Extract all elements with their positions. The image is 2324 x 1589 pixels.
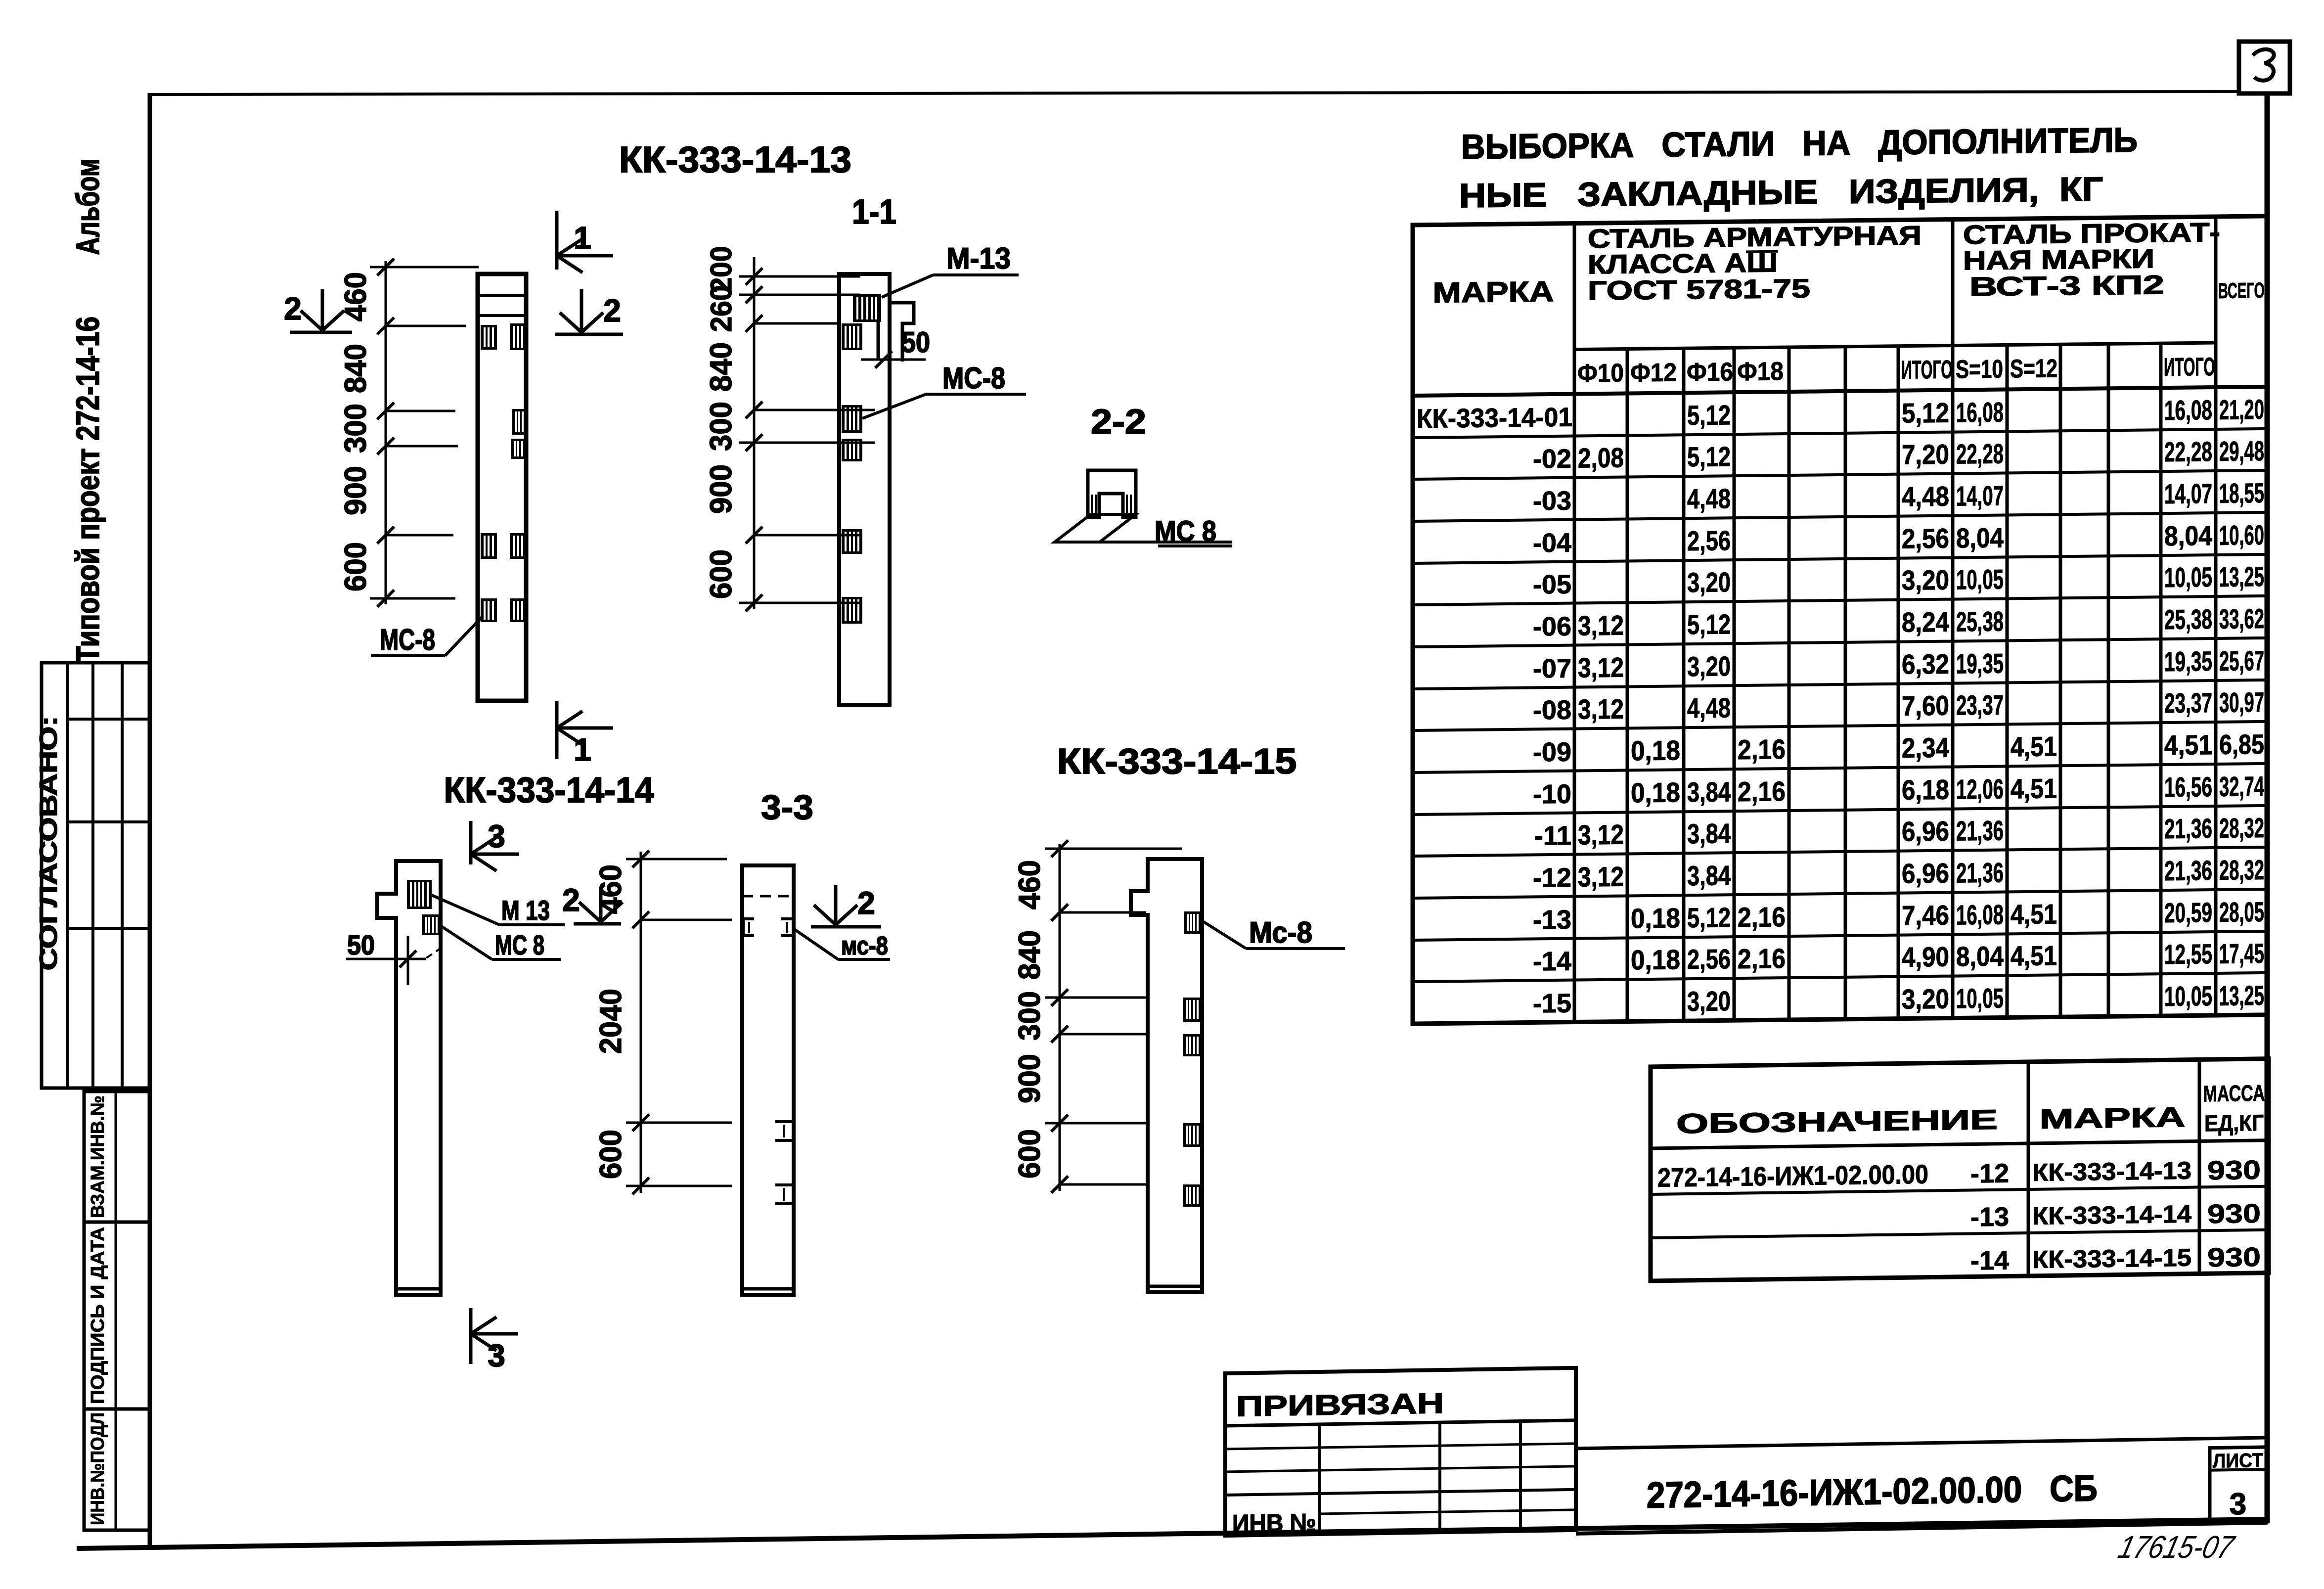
subheader diameters row (1577, 353, 2215, 388)
svg-text:5,12: 5,12 (1902, 397, 1949, 429)
svg-text:1-1: 1-1 (852, 192, 896, 231)
svg-text:2: 2 (857, 885, 875, 921)
svg-text:5,12: 5,12 (1687, 399, 1731, 431)
svg-text:-10: -10 (1533, 779, 1571, 810)
designation table headers (1676, 1080, 2265, 1143)
svg-text:-13: -13 (1970, 1202, 2009, 1232)
svg-text:10,05: 10,05 (1956, 563, 2004, 595)
view marker 2 right (3-3) (811, 885, 881, 927)
svg-text:1: 1 (574, 732, 591, 768)
text ПРИВЯЗАН (1236, 1387, 1444, 1423)
svg-text:0,18: 0,18 (1631, 734, 1680, 766)
svg-text:МС-8: МС-8 (380, 623, 435, 656)
svg-text:3: 3 (2230, 1487, 2246, 1522)
svg-text:СОГЛАСОВАНО:: СОГЛАСОВАНО: (35, 716, 62, 971)
svg-text:0,18: 0,18 (1631, 902, 1680, 934)
svg-text:32,74: 32,74 (2219, 771, 2264, 802)
dimension ticks section 1-1 (746, 268, 762, 611)
svg-text:М-13: М-13 (946, 242, 1011, 275)
svg-text:-06: -06 (1533, 612, 1571, 642)
svg-text:2: 2 (603, 293, 621, 328)
svg-text:7,60: 7,60 (1902, 690, 1949, 722)
dim label 900 (1-1) (704, 464, 738, 514)
steel table title line 2 (1459, 170, 2103, 215)
label MC-8 with leader (1-1) (862, 362, 1026, 418)
svg-text:260: 260 (705, 285, 738, 332)
extension lines section 3-3 (626, 859, 732, 1186)
svg-text:0,18: 0,18 (1631, 944, 1680, 975)
sheet number 3 (2253, 49, 2274, 81)
dimension line section 3-3 (640, 852, 642, 1193)
svg-text:3,20: 3,20 (1902, 983, 1949, 1015)
svg-text:S=10: S=10 (1956, 355, 2003, 384)
svg-text:3,12: 3,12 (1578, 861, 1624, 893)
svg-text:21,20: 21,20 (2219, 394, 2264, 425)
svg-text:1: 1 (574, 220, 591, 256)
svg-text:18,55: 18,55 (2219, 477, 2264, 509)
svg-text:ИТОГО: ИТОГО (1901, 356, 1953, 385)
svg-text:-14: -14 (1970, 1246, 2009, 1276)
svg-text:ВЗАМ.ИНВ.№: ВЗАМ.ИНВ.№ (88, 1095, 108, 1218)
svg-text:-11: -11 (1534, 821, 1571, 851)
svg-text:КК-333-14-14: КК-333-14-14 (444, 771, 654, 810)
designation row 3 (1970, 1242, 2261, 1276)
label section 1-1 (852, 192, 896, 231)
svg-text:4,48: 4,48 (1902, 481, 1949, 512)
dimension line bar15 (1059, 844, 1061, 1191)
label MC-8 with leader (3-3) (794, 929, 890, 960)
svg-text:460: 460 (339, 272, 373, 321)
svg-text:КК-333-14-13: КК-333-14-13 (619, 139, 851, 180)
designation table frame (1651, 1059, 2269, 1281)
view marker 2 right (555, 289, 623, 334)
bracket figure 2-2 (1088, 470, 1136, 517)
svg-text:6,32: 6,32 (1902, 648, 1949, 680)
svg-text:-05: -05 (1533, 570, 1571, 600)
svg-text:2,34: 2,34 (1902, 732, 1949, 764)
dim label 840 (1-1) (704, 342, 738, 392)
svg-text:300: 300 (1013, 991, 1047, 1041)
svg-text:2,56: 2,56 (1687, 525, 1731, 556)
svg-text:Ф16: Ф16 (1687, 358, 1733, 387)
extension lines bar13 (370, 267, 479, 598)
svg-text:-09: -09 (1533, 737, 1571, 768)
plates of section 3-3 (743, 919, 794, 1204)
album stamp text line 2 (69, 159, 106, 255)
dim label 900 (339, 466, 373, 515)
steel table column lines (1574, 217, 2216, 1022)
svg-text:6,18: 6,18 (1902, 774, 1949, 806)
svg-text:16,56: 16,56 (2164, 771, 2212, 803)
svg-text:МАРКА: МАРКА (1433, 275, 1554, 309)
svg-text:Ф18: Ф18 (1737, 357, 1784, 386)
embedded plates of bar 13 (481, 323, 526, 622)
svg-text:МС-8: МС-8 (942, 362, 1005, 395)
svg-text:17,45: 17,45 (2219, 938, 2264, 969)
column bar KK-333-14-14 (377, 861, 441, 1295)
sheet cell ЛИСТ (2210, 1447, 2267, 1524)
svg-text:-15: -15 (1533, 989, 1571, 1019)
dim label 200 (1-1) (705, 246, 738, 293)
svg-text:2,16: 2,16 (1738, 901, 1786, 933)
stamp cell ИНВ № ПОДЛ (84, 1409, 149, 1530)
svg-text:600: 600 (594, 1130, 628, 1179)
svg-text:3,12: 3,12 (1578, 819, 1624, 851)
dim label 600 (15) (1013, 1129, 1047, 1179)
frame right border (2265, 93, 2270, 1523)
dim label 300 (339, 404, 373, 453)
svg-text:2,16: 2,16 (1738, 733, 1786, 765)
steel table row lines (1413, 429, 2268, 982)
svg-text:S=12: S=12 (2010, 354, 2057, 383)
dim label 600 (1-1) (704, 549, 738, 599)
svg-text:4,51: 4,51 (2164, 729, 2212, 761)
section marker 1 bottom (557, 701, 613, 768)
svg-text:600: 600 (339, 542, 373, 591)
column bar section 1-1 (839, 274, 890, 705)
svg-text:4,90: 4,90 (1902, 941, 1949, 973)
svg-text:2: 2 (284, 291, 302, 326)
svg-text:3,20: 3,20 (1902, 564, 1949, 596)
svg-text:Мс-8: Мс-8 (1249, 916, 1312, 949)
album stamp text line 1 (69, 317, 106, 663)
dim 50 of bar14 (346, 929, 444, 985)
svg-text:-02: -02 (1533, 444, 1571, 474)
svg-text:6,96: 6,96 (1902, 816, 1949, 847)
dim label 900 (15) (1013, 1054, 1047, 1103)
svg-text:300: 300 (704, 402, 738, 451)
svg-text:ПОДПИСЬ И ДАТА: ПОДПИСЬ И ДАТА (88, 1227, 108, 1404)
svg-text:3,20: 3,20 (1687, 985, 1731, 1017)
label KK-333-14-14 (444, 771, 654, 810)
svg-text:600: 600 (1013, 1129, 1047, 1179)
svg-text:Типовой проект 272-14-16: Типовой проект 272-14-16 (69, 317, 106, 663)
svg-text:29,48: 29,48 (2219, 435, 2264, 467)
svg-text:-13: -13 (1533, 905, 1571, 935)
svg-text:КК-333-14-01: КК-333-14-01 (1417, 403, 1572, 434)
svg-text:3-3: 3-3 (761, 788, 813, 826)
stamp cell ПОДПИСЬ И ДАТА (84, 1222, 149, 1409)
svg-text:4,51: 4,51 (2011, 940, 2057, 971)
dim label 840 (15) (1013, 930, 1047, 980)
dimension line section 1-1 (753, 257, 756, 609)
svg-text:КК-333-14-15: КК-333-14-15 (2032, 1244, 2191, 1273)
svg-text:840: 840 (1013, 930, 1047, 980)
svg-text:28,32: 28,32 (2219, 854, 2264, 886)
svg-text:20,59: 20,59 (2164, 897, 2212, 928)
extension lines section 1-1 (739, 276, 875, 603)
svg-text:2,56: 2,56 (1687, 943, 1731, 975)
svg-text:ЛИСТ: ЛИСТ (2213, 1450, 2263, 1472)
column bar KK-333-14-15 (1131, 859, 1202, 1292)
svg-text:21,36: 21,36 (1956, 815, 2004, 846)
svg-text:16,08: 16,08 (2164, 394, 2212, 426)
approval stamp text (35, 716, 62, 971)
svg-text:930: 930 (2207, 1242, 2261, 1272)
svg-text:3,20: 3,20 (1687, 566, 1731, 598)
text ИНВ № (1232, 1508, 1316, 1538)
label M-13 with leader (882, 242, 1019, 297)
svg-text:600: 600 (704, 549, 738, 599)
svg-text:ГОСТ 5781-75: ГОСТ 5781-75 (1588, 274, 1810, 306)
plate MC8 of bar14 (422, 914, 441, 935)
svg-text:2,56: 2,56 (1902, 523, 1949, 554)
svg-text:4,51: 4,51 (2011, 772, 2057, 804)
svg-text:3,84: 3,84 (1687, 776, 1731, 808)
svg-text:МАССА: МАССА (2203, 1080, 2265, 1107)
svg-text:3,84: 3,84 (1687, 817, 1731, 849)
view marker 2 left (284, 289, 352, 332)
svg-text:840: 840 (704, 342, 738, 392)
frame bottom border (77, 1519, 2269, 1548)
label KK-333-14-15 (1057, 742, 1297, 781)
label MC-8 of bar13 (371, 616, 483, 656)
svg-text:-04: -04 (1533, 528, 1571, 558)
svg-text:900: 900 (339, 466, 373, 515)
label KK-333-14-13 (619, 139, 851, 180)
dimension ticks bar15 (1051, 840, 1068, 1193)
svg-text:13,25: 13,25 (2219, 561, 2264, 592)
svg-text:КК-333-14-13: КК-333-14-13 (2032, 1157, 2191, 1186)
anchor profile at M-13 (878, 303, 914, 362)
svg-text:3,12: 3,12 (1578, 652, 1624, 683)
base plate parallelogram 2-2 (1055, 514, 1232, 542)
svg-text:12,55: 12,55 (2164, 938, 2212, 970)
steel table title line 1 (1461, 121, 2138, 166)
header Сталь арматурная (1588, 221, 1922, 306)
dim label 260 (1-1) (705, 285, 738, 332)
approval stamp box СОГЛАСОВАНО (42, 663, 149, 1088)
svg-text:8,24: 8,24 (1902, 606, 1949, 638)
dim label 460 (339, 272, 373, 321)
plate M13 of bar14 (407, 880, 432, 909)
svg-text:-14: -14 (1533, 947, 1571, 977)
svg-text:3: 3 (488, 818, 505, 854)
svg-text:28,32: 28,32 (2219, 812, 2264, 844)
label MC-8 with leader (bar15) (1202, 916, 1345, 949)
frame left border (148, 93, 152, 1547)
dimension line bar13 (385, 261, 387, 604)
steel table outer frame (1413, 216, 2268, 1024)
svg-text:17615-07: 17615-07 (2115, 1529, 2238, 1565)
header Сталь прокатная (1963, 218, 2220, 302)
svg-text:Ф12: Ф12 (1630, 358, 1677, 387)
dim label 600 (3-3) (594, 1130, 628, 1179)
svg-text:МС 8: МС 8 (495, 929, 544, 960)
svg-text:14,07: 14,07 (1956, 480, 2004, 511)
svg-text:8,04: 8,04 (2164, 520, 2212, 551)
svg-text:-03: -03 (1533, 486, 1571, 516)
svg-text:460: 460 (1013, 860, 1047, 909)
svg-text:16,08: 16,08 (1956, 396, 2004, 428)
svg-text:4,51: 4,51 (2011, 898, 2057, 930)
header МАРКА (1433, 275, 1554, 309)
svg-text:22,28: 22,28 (2164, 436, 2212, 467)
svg-text:10,05: 10,05 (2164, 980, 2212, 1012)
label M 13 with leader (bar14) (432, 895, 565, 926)
svg-text:2-2: 2-2 (1091, 402, 1146, 441)
designation row 2 (1970, 1199, 2261, 1232)
svg-text:272-14-16-ИЖ1-02.00.00: 272-14-16-ИЖ1-02.00.00 (1657, 1160, 1928, 1193)
svg-text:7,46: 7,46 (1902, 900, 1949, 931)
svg-text:23,37: 23,37 (1956, 689, 2004, 721)
svg-text:10,05: 10,05 (2164, 561, 2212, 593)
handwritten number 17615-07 (2115, 1529, 2238, 1565)
frame top border (148, 91, 2240, 94)
dim label 600 (339, 542, 373, 591)
svg-text:300: 300 (339, 404, 373, 453)
label section 2-2 (1091, 402, 1146, 441)
svg-text:19,35: 19,35 (1956, 647, 2004, 679)
svg-text:5,12: 5,12 (1687, 608, 1731, 640)
dim 50 of section 1-1 (861, 326, 930, 368)
dim label 460 (3-3) (594, 864, 628, 914)
svg-text:21,36: 21,36 (2164, 855, 2212, 886)
svg-text:460: 460 (594, 864, 628, 914)
sheet number box (2239, 42, 2290, 93)
svg-text:ВСЕГО: ВСЕГО (2218, 278, 2265, 303)
svg-text:2040: 2040 (594, 989, 628, 1054)
svg-text:-08: -08 (1533, 695, 1571, 726)
dim label 2040 (3-3) (594, 989, 628, 1054)
svg-text:ИТОГО: ИТОГО (2164, 353, 2215, 382)
svg-text:3,12: 3,12 (1578, 610, 1624, 641)
section marker 3 top (471, 818, 519, 871)
svg-text:30,97: 30,97 (2219, 686, 2264, 718)
svg-text:900: 900 (1013, 1054, 1047, 1103)
svg-text:3,12: 3,12 (1578, 693, 1624, 725)
dim label 300 (15) (1013, 991, 1047, 1041)
svg-text:19,35: 19,35 (2164, 645, 2212, 677)
svg-text:25,38: 25,38 (2164, 603, 2212, 635)
svg-text:272-14-16-ИЖ1-02.00.00 СБ: 272-14-16-ИЖ1-02.00.00 СБ (1647, 1467, 2098, 1515)
svg-text:4,48: 4,48 (1687, 692, 1731, 724)
dimension ticks section 3-3 (632, 851, 649, 1194)
svg-text:10,60: 10,60 (2219, 519, 2264, 551)
embedded plates of bar15 (1183, 911, 1201, 1207)
svg-text:21,36: 21,36 (2164, 813, 2212, 844)
svg-text:МС 8: МС 8 (1155, 515, 1216, 547)
header ВСЕГО (2218, 278, 2265, 303)
svg-text:-12: -12 (1533, 863, 1571, 893)
extension lines bar15 (1045, 849, 1182, 1184)
designation text 272-14-16-ИЖ1-02.00.00 СБ (1647, 1467, 2098, 1515)
svg-text:6,85: 6,85 (2219, 728, 2264, 760)
svg-text:5,12: 5,12 (1687, 902, 1731, 933)
svg-text:28,05: 28,05 (2219, 896, 2264, 928)
svg-text:3,20: 3,20 (1687, 650, 1731, 682)
svg-text:6,96: 6,96 (1902, 858, 1949, 889)
stamp cell ВЗАМ ИНВ № (84, 1091, 149, 1222)
svg-text:ОБОЗНАЧЕНИЕ: ОБОЗНАЧЕНИЕ (1676, 1104, 1998, 1139)
svg-text:10,05: 10,05 (1956, 982, 2004, 1014)
view marker 2 left (3-3) (562, 882, 623, 924)
svg-text:8,04: 8,04 (1956, 940, 2004, 972)
svg-text:ИНВ №: ИНВ № (1232, 1508, 1316, 1538)
svg-text:25,67: 25,67 (2219, 645, 2264, 677)
label MC 8 with leader (bar14) (441, 926, 561, 960)
bar top joint lines (478, 296, 526, 316)
svg-text:13,25: 13,25 (2219, 980, 2264, 1011)
label MC 8 (2-2) (1155, 515, 1232, 547)
label section 3-3 (761, 788, 813, 826)
svg-text:ПРИВЯЗАН: ПРИВЯЗАН (1236, 1387, 1444, 1423)
svg-text:ВЫБОРКА СТАЛИ НА ДОПОЛНИ: ВЫБОРКА СТАЛИ НА ДОПОЛНИТЕЛЬ (1461, 121, 2138, 166)
svg-text:21,36: 21,36 (1956, 857, 2004, 888)
section marker 3 bottom (471, 1308, 518, 1373)
svg-text:7,20: 7,20 (1902, 439, 1949, 470)
svg-text:МАРКА: МАРКА (2039, 1101, 2185, 1135)
svg-text:КК-333-14-15: КК-333-14-15 (1057, 742, 1297, 781)
svg-text:33,62: 33,62 (2219, 603, 2264, 635)
tie-in box ПРИВЯЗАН (1225, 1368, 1576, 1536)
svg-text:2,08: 2,08 (1578, 442, 1624, 474)
svg-text:930: 930 (2207, 1199, 2261, 1229)
svg-text:22,28: 22,28 (1956, 438, 2004, 469)
svg-text:900: 900 (704, 464, 738, 514)
column bar KK-333-14-13 (478, 274, 526, 701)
svg-text:8,04: 8,04 (1956, 522, 2004, 553)
svg-text:4,51: 4,51 (2011, 730, 2057, 762)
svg-text:2: 2 (562, 882, 580, 918)
svg-text:930: 930 (2207, 1155, 2261, 1185)
svg-text:23,37: 23,37 (2164, 687, 2212, 719)
steel table header lines (1413, 342, 2268, 396)
svg-text:14,07: 14,07 (2164, 478, 2212, 509)
designation row 1 (1657, 1155, 2261, 1193)
svg-text:Альбом: Альбом (69, 159, 106, 255)
svg-text:2,16: 2,16 (1738, 775, 1786, 807)
svg-text:3: 3 (488, 1338, 505, 1373)
svg-text:50: 50 (347, 929, 375, 960)
svg-text:НЫЕ ЗАКЛАДНЫЕ ИЗДЕЛИЯ, КГ: НЫЕ ЗАКЛАДНЫЕ ИЗДЕЛИЯ, КГ (1459, 170, 2103, 215)
svg-text:М 13: М 13 (501, 895, 550, 926)
svg-text:3,84: 3,84 (1687, 860, 1731, 891)
title strip lines (1576, 1438, 2267, 1534)
svg-text:Ф10: Ф10 (1577, 359, 1624, 388)
plate M-13 of section 1-1 (853, 294, 881, 322)
svg-text:12,06: 12,06 (1956, 773, 2004, 805)
svg-text:ИНВ.№ПОДЛ: ИНВ.№ПОДЛ (88, 1412, 108, 1525)
svg-text:50: 50 (901, 326, 930, 359)
svg-text:-12: -12 (1970, 1159, 2009, 1189)
dim label 840 (339, 344, 373, 393)
svg-text:5,12: 5,12 (1687, 441, 1731, 472)
svg-text:4,48: 4,48 (1687, 483, 1731, 514)
dim label 460 (15) (1013, 860, 1047, 909)
svg-text:840: 840 (339, 344, 373, 393)
svg-text:2,16: 2,16 (1738, 943, 1786, 974)
dim label 300 (1-1) (704, 402, 738, 451)
svg-text:-07: -07 (1533, 654, 1571, 684)
steel table data rows (1417, 394, 2264, 1020)
svg-text:ВСТ-3 КП2: ВСТ-3 КП2 (1969, 270, 2164, 302)
svg-text:0,18: 0,18 (1631, 776, 1680, 808)
svg-text:25,38: 25,38 (1956, 605, 2004, 637)
svg-text:КК-333-14-14: КК-333-14-14 (2032, 1200, 2191, 1230)
svg-text:ЕД,КГ: ЕД,КГ (2204, 1110, 2264, 1136)
svg-text:16,08: 16,08 (1956, 899, 2004, 930)
section marker 1 top (557, 211, 613, 272)
embedded plates MC-8 of section 1-1 (842, 323, 862, 624)
dimension ticks bar13 (377, 259, 394, 607)
column bar section 3-3 (742, 865, 794, 1295)
svg-text:мс-8: мс-8 (841, 932, 888, 960)
